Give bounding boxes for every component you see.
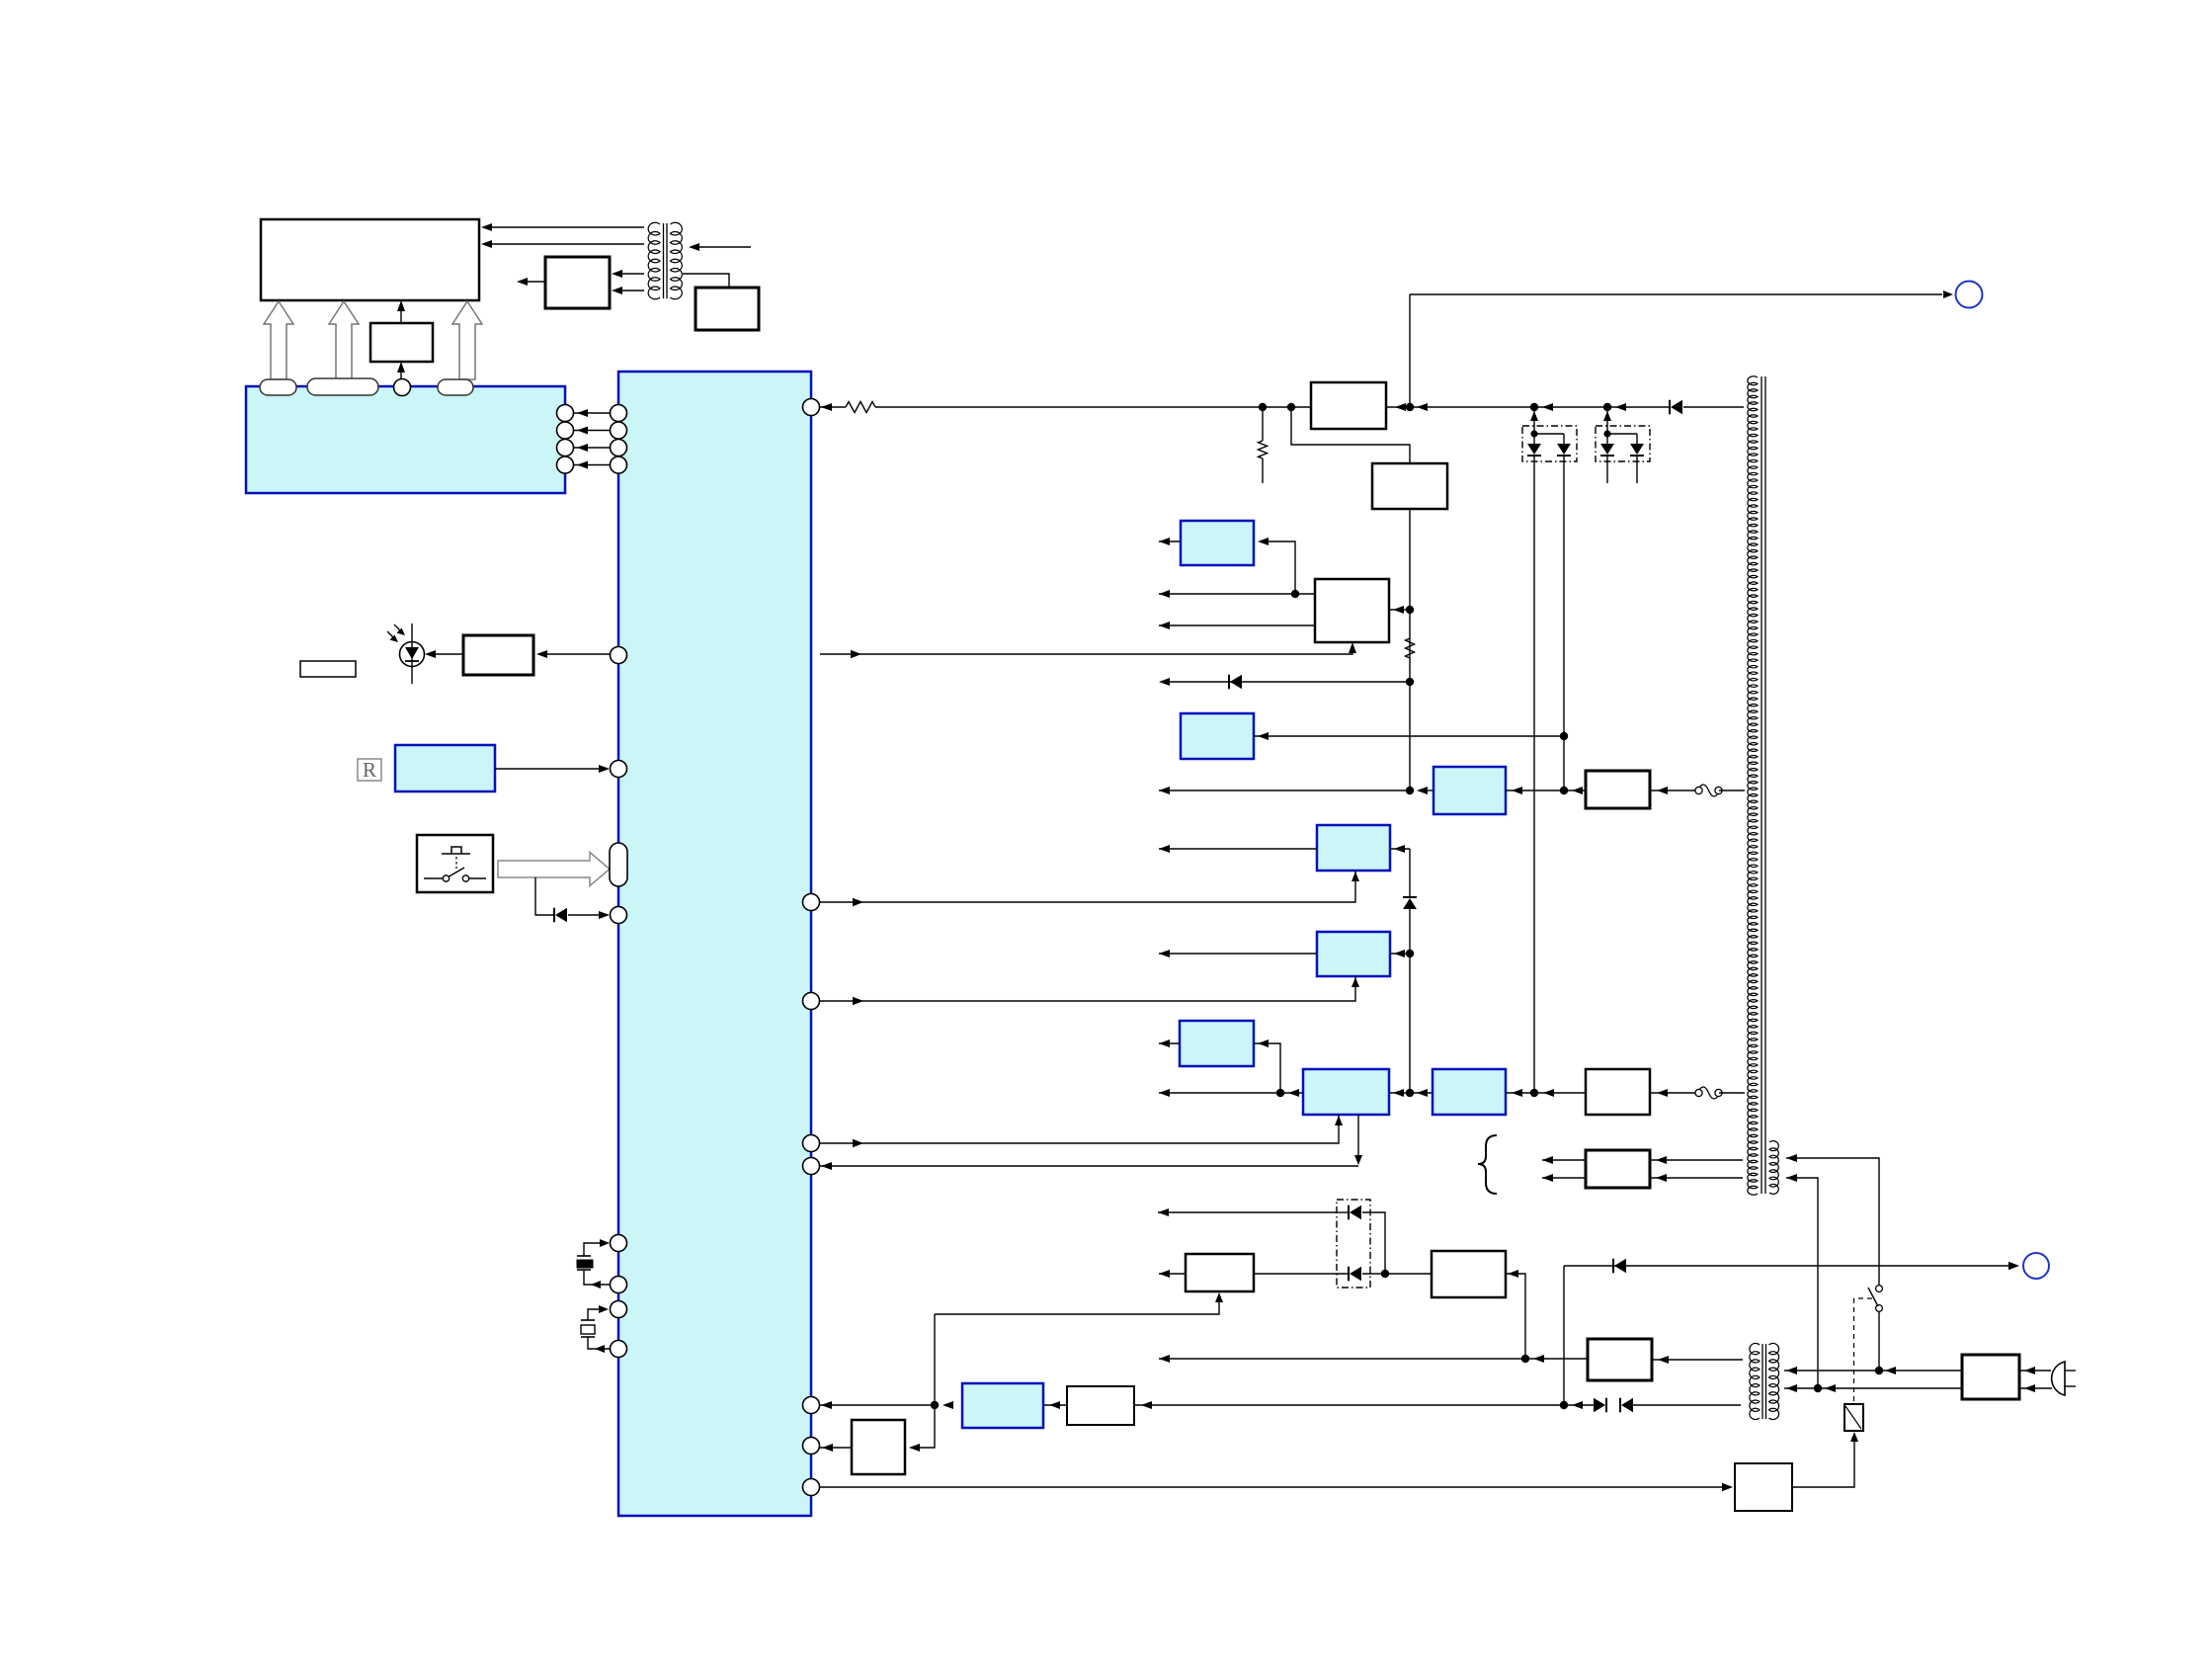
wire junction up to U7 feed [934, 1314, 936, 1405]
wire bus to U3 right side [1389, 609, 1410, 611]
cyan box C7 (main reg) [1303, 1069, 1389, 1115]
wire row to micom pin [820, 1165, 1358, 1167]
junction [931, 1401, 939, 1409]
R marker icon [358, 759, 381, 781]
box U13 (relay driver) [1735, 1463, 1792, 1511]
pin micom right [803, 1158, 820, 1175]
wire switch arrow branch down to diode [535, 877, 553, 915]
wire row into U3 (stub) [1159, 593, 1315, 595]
wire into C7 right [1389, 1092, 1433, 1094]
diode D102 on switch line [553, 908, 555, 923]
cyan box C5 (reg) [1317, 932, 1390, 976]
wire row 1387 T3 to AC filter [1784, 1370, 1962, 1372]
transformer T3 secondary winding (right) [1769, 1343, 1779, 1419]
junction [1530, 403, 1538, 411]
pin micom crystal 2 [611, 1277, 627, 1293]
junction [1259, 403, 1267, 411]
pin micom left (remote input) [611, 647, 627, 664]
wire micom to relay row [820, 1404, 935, 1406]
wire U105 to photodetector [429, 653, 463, 655]
switch S101 key symbol [442, 853, 470, 855]
wire switch to T3 row junction [1878, 1311, 1880, 1371]
junction [1875, 1367, 1883, 1374]
cyan box C3 on row A [1434, 767, 1506, 814]
cyan box C1 (5V reg) [1181, 521, 1254, 565]
wire D2b down to C-row [1563, 456, 1565, 790]
pin micom right [803, 1135, 820, 1152]
wire D4 to transformer T1 [1683, 406, 1744, 408]
bus arrow 3 (hollow up arrow) [452, 301, 482, 379]
wire input line 1 into U101 from transformer T2 [486, 226, 644, 228]
junction [1560, 787, 1568, 794]
box U5 rectifier [1586, 1069, 1650, 1115]
wire U7 to D6 lower diode [1254, 1273, 1349, 1275]
transformer T3 primary winding (left) [1750, 1343, 1760, 1419]
wire C7 bottom-right down to row (down arrow) [1357, 1115, 1359, 1160]
pin on board A right edge [557, 405, 574, 422]
wire into U10 right [1134, 1404, 1564, 1406]
pin node on board A top edge [394, 379, 411, 396]
stub wire D3a [1606, 456, 1608, 483]
wire row 2 into U3 (stub) [1159, 624, 1315, 626]
pin micom right [803, 894, 820, 911]
wire bus link 4 board A to micom [574, 464, 611, 466]
wire pin to U102 with up arrow [400, 368, 402, 379]
connector pill on micom left edge [610, 843, 627, 886]
resistor R102 vertical [1259, 441, 1268, 458]
wire junction to regulator U2 top [1291, 407, 1410, 463]
wire D2a down to supply row [1533, 456, 1535, 1093]
cyan box C9 (relay driver) [962, 1383, 1043, 1428]
pin micom left (encoder input) [611, 761, 627, 778]
transformer T1 aux winding (right lower) [1769, 1141, 1778, 1195]
link wire inside D3 [1607, 433, 1637, 435]
power switch box S101 [417, 835, 493, 892]
box U3 system regulator [1315, 579, 1389, 642]
wire bus down [1409, 954, 1411, 1093]
box U6 (sub power) [1586, 1150, 1650, 1188]
junction [1287, 403, 1295, 411]
wire diode to micom pin [568, 914, 604, 916]
junction [1560, 1401, 1568, 1409]
transformer T2 primary winding (left) [648, 222, 660, 299]
box U7 (driver) [1186, 1254, 1254, 1291]
wire rail to D3 with up arrow [1606, 407, 1608, 434]
wire C6 right down to supply row [1254, 1043, 1280, 1093]
stub wire out of C6 left [1159, 1042, 1180, 1044]
wire U5 to fuse F2 [1650, 1092, 1695, 1094]
wire junction up to cyan box C1 input [1261, 541, 1295, 594]
box U2 regulator 2 [1372, 463, 1447, 509]
IC U101 main processor block (top-left) [261, 219, 479, 300]
junction [1603, 403, 1611, 411]
light arrows into photodetector [387, 631, 395, 639]
junction [1521, 1355, 1529, 1363]
box U104 below right of T2 [696, 288, 759, 330]
pin on board A right edge [557, 422, 574, 439]
pin on micom left edge [611, 422, 627, 439]
diode D2b down [1563, 434, 1565, 444]
junction [1291, 590, 1299, 598]
box U11 (power reg) [1588, 1339, 1652, 1380]
wire cyan box B to micom pin [495, 768, 604, 770]
box U105 remote amp [463, 635, 533, 675]
rail continues right of U1 [1386, 406, 1670, 408]
row wire through D6 upper diode (stub left) [1158, 1211, 1337, 1213]
ceramic resonator X102 [581, 1319, 595, 1321]
bus arrow 1 (hollow up arrow) [264, 301, 293, 379]
pin micom right [803, 993, 820, 1010]
transformer T2 core [663, 223, 665, 298]
junction diode row [1406, 678, 1414, 686]
link wire inside D2 [1534, 433, 1564, 435]
back-to-back diodes D7 D8 [1605, 1398, 1607, 1413]
junction D2a end [1530, 1089, 1538, 1097]
diode D5 up on branch [1403, 896, 1417, 898]
wire C7 bottom-left to micom pin (up arrow) [858, 1115, 1339, 1143]
box U1 regulator on rail [1311, 382, 1386, 429]
diode D9 [1612, 1259, 1614, 1274]
vertical from diode row down to relay row [1563, 1266, 1565, 1405]
box U102 small block under U101 [370, 323, 433, 362]
box U8 (driver 2) [1432, 1251, 1506, 1297]
wire U13 to relay coil [1792, 1438, 1854, 1487]
wire diodes to T3 [1632, 1404, 1741, 1406]
junction [1406, 606, 1414, 614]
transformer T3 core [1761, 1344, 1763, 1419]
box U4 rectifier block [1586, 771, 1650, 808]
stub wire U6 left 1 [1542, 1159, 1586, 1161]
junction row 1405 [1814, 1384, 1822, 1392]
diode D3b down [1636, 434, 1638, 444]
wire U6 to T1 tap 1 [1650, 1159, 1743, 1161]
pin micom crystal 1 [611, 1235, 627, 1252]
junction inside D2 [1530, 430, 1537, 437]
wire bus link 1 board A to micom [574, 412, 611, 414]
switch S2 lever [1868, 1288, 1878, 1306]
arrow to AC terminal [2008, 1262, 2019, 1270]
resistor R103 on bus [1406, 638, 1415, 658]
diode D3a down [1606, 434, 1608, 444]
mechanical link dashed switch-relay [1854, 1297, 1873, 1299]
wire junction down to resistor R102 [1262, 407, 1264, 441]
cyan box C8 (reg) [1433, 1069, 1506, 1115]
AC filter box U12 [1962, 1355, 2019, 1399]
pin micom right (relay drive) [803, 1397, 820, 1414]
dashed diode pack D6 [1337, 1200, 1370, 1288]
pin on micom left edge [611, 457, 627, 473]
junction [1276, 1089, 1284, 1097]
wire C8 to U5 [1506, 1092, 1586, 1094]
stub wire D3b [1636, 456, 1638, 483]
diode D1 row from bus [1165, 681, 1410, 683]
transformer T1 secondary winding (main, left) [1748, 376, 1758, 1195]
transformer T2 secondary winding (right) [671, 222, 683, 299]
connector pill CN2 on board A top edge [307, 378, 378, 395]
wire row 1405 T3 to AC filter [1784, 1387, 1962, 1389]
wire pin to rail with arrow [820, 406, 846, 408]
wire fuse to T1 winding [1719, 790, 1745, 791]
wire to DC terminal [1410, 293, 1942, 295]
pin micom right [803, 1438, 820, 1455]
PCB block A (cyan board, top-left) [246, 386, 565, 493]
diode D1 [1228, 675, 1230, 690]
AC detect row wire [1564, 1265, 2013, 1267]
wire resonator bottom to pin [588, 1337, 611, 1349]
cyan box C2 (reg block) [1181, 713, 1254, 759]
pin micom left (switch input) [611, 907, 627, 924]
wire bus elbow into C4 right [1409, 849, 1411, 897]
pin on board A right edge [557, 440, 574, 457]
stub wire U7 left [1159, 1273, 1186, 1275]
wire micom to U13 [820, 1486, 1727, 1488]
thermal fuse F2 [1698, 1087, 1720, 1099]
wire U6 to T1 tap 2 [1650, 1177, 1743, 1179]
junction [1381, 1270, 1389, 1278]
wire C4 bottom to micom pin row [858, 871, 1355, 902]
connector pill CN3 on board A top edge [438, 379, 473, 395]
terminal circle DC out (blue) [1956, 282, 1983, 308]
bus arrow 2 (hollow up arrow) [329, 301, 359, 379]
diode D4 rail to transformer [1669, 400, 1671, 415]
junction [1406, 403, 1414, 411]
row wire to U11 (stub left) [1159, 1358, 1588, 1360]
cyan box B (rotary encoder block) [395, 745, 495, 791]
wire U7 bottom from micom (up arrow) [935, 1297, 1219, 1314]
connector pill CN1 on board A top edge [260, 379, 296, 395]
power switch S2 contacts [1876, 1286, 1883, 1292]
diode D6a [1348, 1206, 1350, 1220]
dashed diode pack D3 (dual diode) [1596, 426, 1650, 461]
photodetector D101 (remote sensor LED) [400, 642, 425, 667]
wire input line 2 into U101 from transformer T2 [486, 243, 644, 245]
stub row into C5 left [1159, 953, 1317, 955]
wire D6a right elbow down [1362, 1212, 1385, 1274]
junction inside D3 [1603, 430, 1610, 437]
cyan box C6 (reg) [1180, 1021, 1254, 1066]
wire D6b to U8 [1362, 1273, 1432, 1275]
wire resonator top to pin [588, 1309, 604, 1320]
junction [1406, 950, 1414, 957]
stub wire U6 left 2 [1542, 1177, 1586, 1179]
wire plug to U12 line 2 [2019, 1387, 2052, 1389]
wire U102 to U101 with up arrow [400, 306, 402, 323]
pin on board A right edge [557, 457, 574, 473]
label box (small rectangle) [300, 661, 356, 677]
IC block B main system micom (tall cyan box) [618, 372, 811, 1516]
wire crystal bottom to pin [584, 1270, 611, 1285]
thermal fuse F1 [1698, 785, 1720, 796]
wire out of U103 to the left [522, 281, 545, 283]
wire into T2 secondary top [694, 246, 751, 248]
wire into C3 right [1506, 790, 1586, 791]
vertical wire up to DC out terminal [1409, 294, 1411, 407]
wire F2 to T1 winding [1719, 1092, 1745, 1094]
wire T2 to U103 line 2 [616, 290, 644, 291]
supply row wire (row A) [1159, 790, 1410, 791]
rail wire to regulator area [875, 406, 1311, 408]
wire resistor stub end [1262, 458, 1264, 483]
relay RY1 coil box [1844, 1404, 1863, 1431]
wire rail to D2 with up arrow [1533, 407, 1535, 434]
hollow arrow switch to micom connector [498, 853, 610, 886]
wire into C2 right from junction [1254, 735, 1564, 737]
pin micom resonator 1 [611, 1301, 627, 1318]
wire T1 aux top to switch vertical [1786, 1158, 1879, 1285]
wire bus link 2 board A to micom [574, 430, 611, 432]
wire bus link 3 board A to micom [574, 447, 611, 449]
pin micom right (power rail) [803, 399, 820, 416]
cyan box C4 (reg) [1317, 825, 1390, 871]
wire C5 bottom to micom pin row [858, 976, 1355, 1001]
resistor R101 on rail [846, 402, 875, 413]
pin on micom left edge [611, 440, 627, 457]
vertical main bus x1427 from U2 down [1409, 509, 1411, 790]
pin micom right (power ctl) [803, 1479, 820, 1496]
supply row B wire [1159, 1092, 1303, 1094]
wire junction down to U9 [911, 1405, 935, 1448]
wire micom pin to U105 [539, 653, 611, 655]
wire into C9 right [1043, 1404, 1067, 1406]
box U103 left of T2 [545, 257, 610, 308]
crystal X101 [577, 1255, 591, 1257]
box U10 [1067, 1386, 1134, 1425]
transformer T1 core [1761, 376, 1762, 1194]
pin micom resonator 2 [611, 1341, 627, 1358]
AC plug P1 [2052, 1362, 2065, 1395]
pin on micom left edge [611, 405, 627, 422]
wire T2 to U103 line 1 [616, 273, 644, 275]
wire micom pin row turning up into U3 bottom [820, 648, 1352, 654]
terminal circle AC out (blue) [2023, 1253, 2049, 1279]
wire into C5 right from bus [1390, 953, 1410, 955]
diode D2a down [1533, 434, 1535, 444]
stub wire out of C1 left [1159, 541, 1181, 542]
wire T2 secondary to U104 [683, 274, 729, 288]
junction end of bus [1406, 787, 1414, 794]
curly brace [1478, 1135, 1497, 1194]
wire U8 right elbow down to T3 row [1506, 1274, 1525, 1359]
wire T1 aux 2 to vertical [1786, 1178, 1818, 1388]
junction bus end [1406, 1089, 1414, 1097]
wire T3 to U11 [1652, 1359, 1743, 1361]
diode D6b [1348, 1267, 1350, 1282]
wire U9 to micom pin [820, 1447, 852, 1449]
junction [1560, 732, 1568, 740]
dashed diode pack D2 (dual diode) [1522, 426, 1577, 461]
wire plug to U12 line 1 [2019, 1370, 2051, 1372]
svg-text:R: R [363, 758, 376, 782]
wire crystal top to pin [584, 1243, 605, 1256]
wire U4 to fuse [1650, 790, 1695, 791]
box U9 (reset) [852, 1420, 905, 1474]
stub wire out of C4 left [1159, 848, 1317, 850]
